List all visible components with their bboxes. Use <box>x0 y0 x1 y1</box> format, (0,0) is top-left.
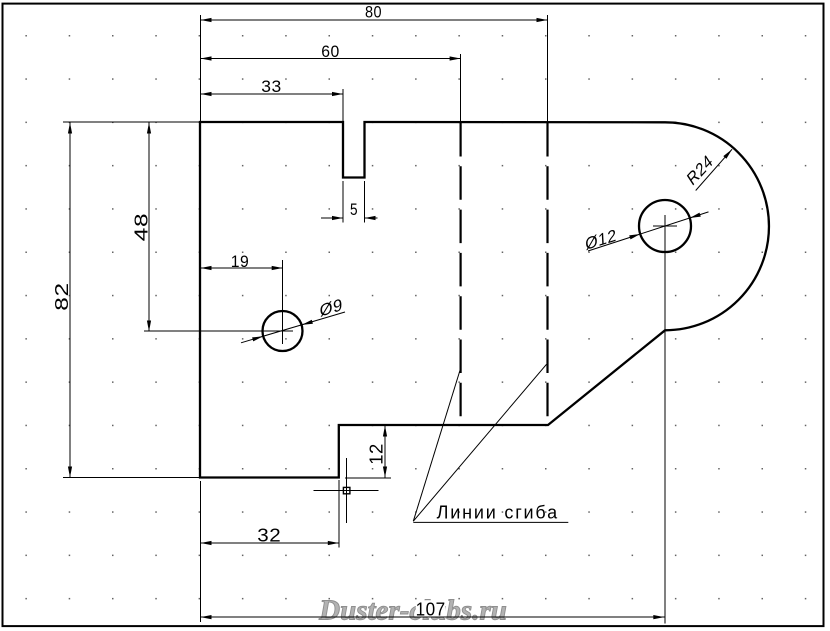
label underline <box>413 521 568 523</box>
dimension texts <box>52 4 716 620</box>
arrow 60 right <box>450 56 461 60</box>
arrow 80 left <box>201 18 212 22</box>
svg-text:32: 32 <box>257 525 281 546</box>
dim line 80 <box>201 19 548 21</box>
dim line 82 <box>69 123 71 478</box>
hole O9 <box>263 311 303 351</box>
ext 5 right <box>364 181 366 223</box>
ext 32/107 left <box>200 481 202 622</box>
dim line 60 <box>201 58 461 60</box>
ext 33 right <box>342 89 344 121</box>
arrow 48 bottom <box>147 321 151 332</box>
ext 19 hole <box>282 260 284 344</box>
crosshair vertical <box>345 458 347 523</box>
svg-text:Линии сгиба: Линии сгиба <box>437 503 559 523</box>
dim line 12 <box>384 426 386 478</box>
part outline <box>200 122 769 478</box>
arrow 33 left <box>201 92 212 96</box>
arrow 19 left <box>201 266 212 270</box>
svg-text:82: 82 <box>52 282 72 311</box>
ext 5 left <box>342 181 344 223</box>
leader fold line 2 <box>413 364 546 521</box>
ext 82 bottom <box>63 477 199 479</box>
arrow 107 left <box>201 615 212 619</box>
ext 80 right <box>547 15 549 121</box>
arrow 32 right <box>328 541 339 545</box>
arrow 82 bottom <box>68 467 72 478</box>
arrow 82 top <box>68 123 72 134</box>
svg-text:80: 80 <box>365 4 382 22</box>
ext 107 right / O12 centerline <box>664 215 666 624</box>
svg-text:48: 48 <box>132 213 152 242</box>
arrow 48 top <box>147 123 151 134</box>
arrow 12 bottom <box>383 467 387 478</box>
ext top shared x200 <box>200 15 202 121</box>
svg-text:19: 19 <box>231 253 250 271</box>
crosshair box <box>343 487 350 493</box>
arrow 107 right <box>653 615 664 619</box>
ext 60 right <box>460 54 462 121</box>
crosshair horizontal <box>314 489 379 491</box>
arrow 32 left <box>201 541 212 545</box>
arrow 5 right <box>365 216 376 220</box>
svg-text:12: 12 <box>367 443 387 465</box>
svg-text:107: 107 <box>416 599 446 620</box>
dim line 32 <box>201 542 339 544</box>
arrow 5 left <box>332 216 343 220</box>
dim line 33 <box>201 93 344 95</box>
svg-text:60: 60 <box>321 43 340 61</box>
arrow 80 right <box>537 18 548 22</box>
arrow O12 upper <box>690 213 701 218</box>
arrow 60 left <box>201 56 212 60</box>
bend line 2 <box>546 123 548 424</box>
hole O12 <box>639 200 691 252</box>
dim text 107 mask <box>416 600 446 616</box>
dim line 48 <box>148 123 150 332</box>
arrow 33 right <box>332 92 343 96</box>
dim line 19 <box>201 267 283 269</box>
svg-text:5: 5 <box>350 201 358 219</box>
arrow O9 upper <box>302 320 313 325</box>
leader R24 <box>696 149 732 190</box>
leader fold line 1 <box>413 367 461 521</box>
ext 82/48 top <box>63 121 199 123</box>
svg-text:Duster-clubs.ru: Duster-clubs.ru <box>318 595 507 627</box>
ext 12 bottom <box>345 477 391 479</box>
dim line 107 <box>201 616 665 618</box>
arrow 19 right <box>272 266 283 270</box>
thin lines <box>63 15 677 624</box>
arrow 12 top <box>383 426 387 437</box>
arrow O9 lower <box>252 336 263 341</box>
ext 32 right <box>338 480 340 548</box>
bend line 1 <box>460 123 462 424</box>
O12 center tick <box>653 225 677 227</box>
svg-text:33: 33 <box>261 78 282 96</box>
dim line 5 right <box>365 217 378 219</box>
leader O12 <box>588 212 709 251</box>
leader O9 <box>241 312 345 343</box>
arrow O12 lower <box>629 234 640 239</box>
ext 48 hole <box>144 330 293 332</box>
arrow R24 <box>723 149 732 159</box>
dim line 5 left <box>321 217 343 219</box>
